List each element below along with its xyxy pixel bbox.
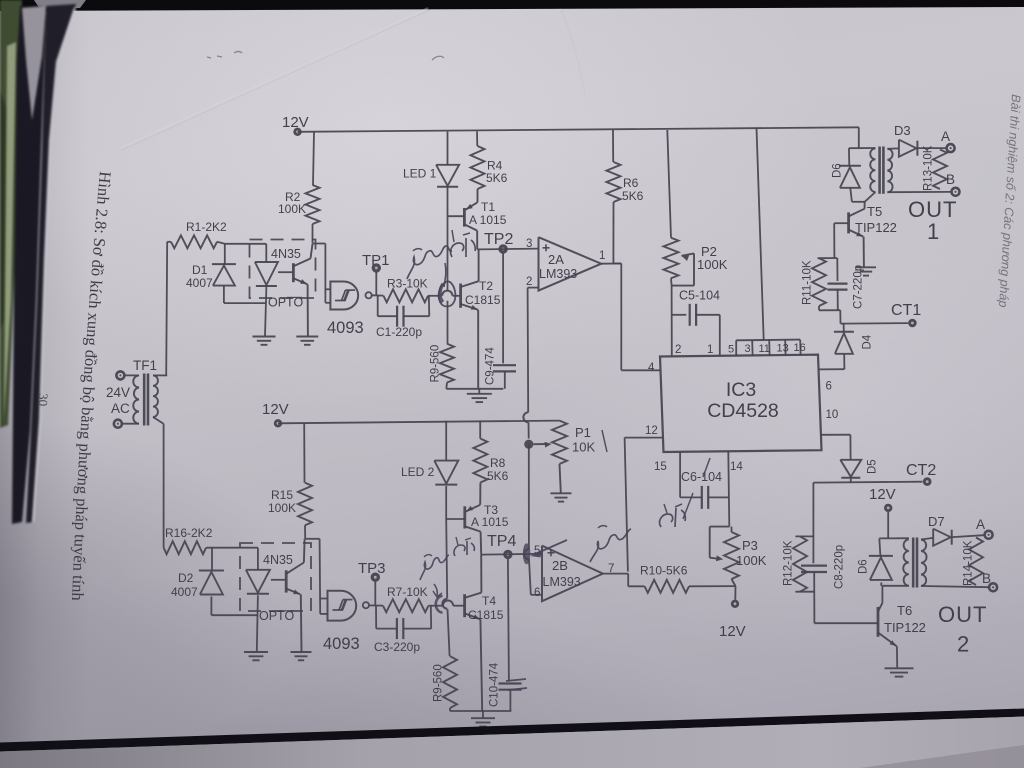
capacitor C7-220p [828, 258, 865, 310]
pin 2 label [675, 344, 681, 356]
node A (OUT2) [976, 517, 993, 539]
wire hop [442, 599, 447, 609]
printed page bottom rule (thick) [0, 709, 1024, 752]
svg-text:LM393: LM393 [543, 575, 581, 589]
book spine / desk edge top-left corner [0, 0, 76, 524]
resistor R4 [471, 131, 508, 189]
svg-text:4093: 4093 [323, 635, 360, 653]
wire [429, 605, 443, 607]
svg-text:Bài thi nghiệm số 2: Các phươn: Bài thi nghiệm số 2: Các phương pháp [996, 94, 1023, 308]
wire [812, 483, 814, 564]
wire [821, 434, 851, 436]
svg-text:1: 1 [927, 219, 939, 244]
ground [253, 337, 276, 345]
wire [819, 306, 841, 324]
wire [428, 295, 442, 297]
ground [471, 711, 495, 727]
svg-text:A: A [941, 129, 950, 144]
paper fold crease [120, 8, 585, 150]
potentiometer P1 [533, 421, 595, 493]
label OUT 2 [938, 602, 987, 657]
svg-text:C10-474: C10-474 [489, 662, 501, 707]
resistor R15 [268, 483, 312, 526]
wire [757, 128, 764, 340]
svg-text:CT2: CT2 [906, 462, 936, 479]
wire [447, 301, 449, 344]
resistor R6 [607, 130, 644, 264]
wire [447, 132, 449, 165]
wire [528, 287, 539, 289]
svg-text:R9-560: R9-560 [433, 664, 445, 702]
wire [887, 191, 951, 193]
svg-text:3: 3 [745, 343, 751, 355]
wire [818, 368, 844, 370]
svg-text:CD4528: CD4528 [707, 400, 779, 422]
svg-text:3: 3 [526, 238, 532, 250]
pin 3 label [745, 343, 751, 355]
capacitor C5-104 [672, 289, 720, 356]
svg-text:T6: T6 [897, 603, 912, 618]
ground [467, 389, 492, 402]
wire hop [523, 412, 528, 422]
wire [445, 421, 447, 461]
wire [303, 423, 305, 483]
wire [278, 271, 293, 273]
ground [244, 652, 268, 660]
wire [879, 537, 909, 539]
NAND gate 4093 (upper) [327, 282, 372, 338]
handwritten note (khong cat, lower) [420, 537, 474, 597]
svg-text:LED 2: LED 2 [401, 465, 435, 479]
potentiometer P2 [664, 130, 728, 286]
wire [163, 424, 165, 548]
resistor R12-10K [783, 536, 808, 591]
transistor T2 C1815 [461, 249, 501, 388]
potentiometer P3 [710, 452, 767, 587]
wire [211, 548, 213, 571]
svg-text:30: 30 [36, 393, 51, 407]
junction (P1 wiper) [524, 440, 533, 449]
svg-text:2: 2 [957, 632, 969, 657]
diode D6 (lower) [858, 538, 893, 586]
svg-text:5K6: 5K6 [487, 469, 509, 483]
wire hop [442, 291, 452, 296]
handwritten circle (wire crossing) [439, 281, 456, 306]
wire [447, 216, 449, 290]
svg-text:D6: D6 [858, 559, 870, 574]
test point TP4 [487, 533, 516, 559]
node B (OUT1) [946, 172, 960, 196]
svg-text:R1-2K2: R1-2K2 [186, 220, 227, 234]
svg-text:5: 5 [728, 344, 734, 356]
wire [453, 605, 464, 607]
pin 10 label [826, 409, 839, 421]
wire [166, 242, 171, 376]
svg-text:A 1015: A 1015 [471, 515, 509, 529]
svg-text:TP2: TP2 [484, 231, 513, 248]
LED 1 [403, 165, 459, 216]
wire [852, 201, 865, 203]
svg-text:12V: 12V [869, 486, 896, 503]
svg-text:CT1: CT1 [891, 302, 921, 319]
ground [551, 493, 572, 501]
diode D5 [840, 435, 878, 483]
pin 12 label [645, 425, 658, 437]
LED 2 [401, 461, 458, 519]
svg-text:TIP122: TIP122 [884, 620, 926, 635]
wire [298, 127, 859, 132]
wire [625, 438, 628, 572]
svg-text:D4: D4 [862, 334, 874, 349]
wire [446, 383, 503, 389]
svg-text:P3: P3 [742, 538, 758, 553]
svg-text:4007: 4007 [171, 585, 198, 599]
wire [278, 421, 560, 424]
svg-text:C1-220p: C1-220p [376, 325, 422, 339]
wire [224, 244, 226, 264]
svg-text:IC3: IC3 [726, 379, 756, 401]
svg-text:T4: T4 [482, 594, 496, 608]
handwritten hop mark (T4 base) [436, 596, 443, 613]
test point TP3 [358, 560, 386, 606]
wire [481, 553, 542, 556]
wire [834, 222, 848, 224]
svg-text:LM393: LM393 [539, 267, 577, 281]
svg-text:D5: D5 [867, 459, 879, 474]
wire [601, 263, 621, 265]
svg-text:D1: D1 [192, 263, 208, 277]
svg-text:R8: R8 [490, 456, 506, 470]
wire [849, 147, 876, 149]
wire [918, 147, 947, 149]
svg-text:C9-474: C9-474 [485, 347, 497, 385]
pin 3 label [526, 238, 532, 250]
node CT1 [841, 302, 922, 327]
IC U3 CD4528 [660, 355, 822, 452]
wire [603, 574, 645, 587]
svg-text:D3: D3 [894, 123, 911, 138]
op-amp U2B LM393 [542, 546, 603, 602]
svg-text:R13-10K: R13-10K [923, 145, 935, 191]
node A (OUT1) [941, 129, 955, 152]
wire [953, 535, 984, 537]
svg-text:B: B [946, 172, 955, 187]
wire [448, 215, 465, 217]
caption (rotated) [68, 171, 115, 602]
pin 1 label [707, 344, 713, 356]
svg-text:12: 12 [645, 425, 658, 437]
svg-text:D6: D6 [832, 163, 844, 178]
wire [843, 323, 845, 331]
ground [856, 267, 876, 275]
wire [206, 547, 258, 549]
svg-text:R16-2K2: R16-2K2 [165, 526, 213, 540]
wire [689, 585, 736, 587]
margin text (right edge) [996, 94, 1023, 308]
paper speck [207, 52, 444, 61]
svg-text:100K: 100K [736, 553, 767, 568]
svg-text:1: 1 [707, 344, 713, 356]
svg-text:4N35: 4N35 [271, 247, 301, 261]
svg-text:16: 16 [794, 342, 806, 354]
resistor R11-10K [802, 258, 827, 306]
wire [313, 244, 326, 303]
svg-text:TF1: TF1 [133, 358, 157, 373]
svg-text:10: 10 [826, 409, 839, 421]
pin 15 label [654, 461, 667, 473]
pin 2 label [526, 276, 532, 288]
svg-text:D7: D7 [928, 514, 945, 529]
svg-text:R7-10K: R7-10K [387, 585, 428, 599]
wire [795, 591, 814, 593]
pin 6 label [534, 587, 540, 599]
resistor R9-560 (lower) [433, 656, 458, 708]
op-amp U2A LM393 [539, 237, 602, 290]
page number 30 [36, 393, 51, 407]
resistor R16-2K2 [164, 526, 213, 554]
wire [305, 539, 320, 614]
svg-text:TIP122: TIP122 [855, 220, 897, 235]
svg-text:6: 6 [534, 587, 540, 599]
node 12V supply (top rail) [282, 114, 309, 136]
transformer (pulse) T5 side [865, 147, 893, 202]
svg-text:5K6: 5K6 [486, 171, 508, 185]
pin 11 label [759, 343, 770, 355]
wire [921, 586, 989, 587]
pin 6 label [826, 381, 832, 393]
wire [325, 289, 330, 303]
svg-text:1: 1 [599, 250, 605, 262]
wire [304, 525, 306, 539]
diode D6 [832, 148, 861, 202]
capacitor C8-220p [801, 545, 846, 589]
svg-text:C3-220p: C3-220p [374, 640, 420, 654]
svg-text:C8-220p: C8-220p [834, 545, 846, 589]
pin 13 label [777, 343, 789, 355]
label OUT 1 [908, 197, 957, 244]
pin 7 label [608, 563, 614, 575]
svg-text:R12-10K: R12-10K [783, 540, 795, 586]
wire [818, 257, 838, 259]
svg-text:P1: P1 [575, 425, 591, 440]
svg-text:R10-5K6: R10-5K6 [640, 564, 688, 578]
wire [858, 127, 860, 148]
optocoupler U1 4N35 box [250, 240, 316, 299]
wire [613, 264, 659, 371]
capacitor C10-474 [489, 559, 522, 711]
wire [477, 248, 538, 251]
transistor T1 A1015 [464, 189, 506, 249]
wire [313, 132, 314, 185]
transistor T3 A1015 [465, 483, 509, 555]
transistor T6 TIP122 [878, 603, 926, 646]
wire [833, 223, 835, 258]
wire [528, 444, 530, 549]
wire [887, 147, 899, 149]
wire [795, 535, 814, 537]
wire [450, 708, 511, 711]
svg-text:2: 2 [675, 344, 681, 356]
pin 1 label [599, 250, 605, 262]
wire [372, 294, 384, 296]
svg-text:LED 1: LED 1 [403, 167, 437, 181]
wire [448, 609, 450, 656]
svg-text:4N35: 4N35 [263, 553, 293, 567]
svg-text:R11-10K: R11-10K [802, 260, 814, 305]
pin 14 label [730, 461, 743, 473]
node B (OUT2) [982, 571, 997, 591]
svg-text:5K6: 5K6 [622, 189, 644, 203]
transformer TF1 [114, 358, 167, 428]
capacitor C3-220p [374, 606, 431, 654]
capacitor C9-474 [485, 253, 517, 388]
svg-text:R9-560: R9-560 [430, 345, 442, 383]
svg-text:C1815: C1815 [465, 293, 501, 307]
handwritten note (khong cat, mid) [590, 430, 710, 562]
wire [211, 597, 258, 616]
photo top black edge [0, 0, 1024, 11]
wire [369, 604, 383, 606]
wire [527, 288, 530, 413]
svg-text:24V: 24V [106, 385, 130, 400]
svg-text:R6: R6 [623, 176, 639, 190]
svg-text:100K: 100K [268, 501, 296, 515]
wire hop [443, 600, 453, 605]
svg-text:11: 11 [759, 343, 770, 355]
wire [529, 559, 542, 595]
diode D7 [928, 514, 952, 546]
node 12V (out2) [869, 486, 896, 538]
wire [271, 579, 285, 581]
wire [625, 437, 663, 439]
svg-text:C1815: C1815 [468, 608, 504, 622]
label OPTO [268, 296, 303, 310]
opto LED D (4N35 #2) [246, 548, 270, 652]
opto LED D (4N35) [255, 244, 278, 336]
svg-text:2A: 2A [548, 252, 564, 267]
ground [885, 668, 914, 676]
opto phototransistor [286, 539, 304, 652]
wire [224, 286, 266, 303]
resistor R1-2K2 [171, 220, 227, 248]
svg-text:4: 4 [648, 362, 655, 374]
svg-text:D2: D2 [178, 571, 194, 585]
resistor R2 [278, 185, 320, 224]
pin 4 label [648, 362, 655, 374]
handwritten equals mark (left edge) [506, 679, 527, 690]
optocoupler U4 4N35 box [240, 543, 311, 611]
node 12V supply (lower rail) [262, 401, 289, 427]
diode D2 [171, 571, 224, 600]
NAND gate 4093 (lower) [323, 591, 369, 653]
wire [921, 538, 933, 540]
wire hop [524, 549, 529, 559]
resistor R7-10K [383, 585, 429, 612]
svg-text:15: 15 [654, 461, 667, 473]
svg-text:T1: T1 [481, 200, 495, 214]
svg-text:13: 13 [777, 343, 789, 355]
node CT2 [813, 462, 936, 486]
wire [217, 242, 266, 244]
resistor R3-10K [384, 277, 429, 303]
handwritten note (khong cat, upper) [407, 230, 475, 287]
svg-text:12V: 12V [719, 623, 746, 640]
label OPTO [259, 609, 294, 623]
ground [291, 652, 312, 660]
wire [446, 518, 465, 520]
svg-text:R14-10K: R14-10K [963, 540, 975, 586]
IC3 pin bus comb [736, 340, 800, 356]
svg-text:2B: 2B [552, 558, 568, 573]
svg-text:14: 14 [730, 461, 743, 473]
diode D3 [894, 123, 917, 157]
resistor R13-10K [923, 145, 948, 191]
capacitor C1-220p [376, 296, 429, 340]
ground [296, 337, 318, 345]
resistor R9-560 [430, 344, 455, 383]
svg-text:AC: AC [111, 401, 130, 416]
resistor R14-10K [963, 538, 984, 587]
wire [453, 295, 461, 297]
transistor T4 C1815 [465, 555, 504, 711]
opto phototransistor [293, 244, 312, 336]
svg-text:OUT: OUT [938, 602, 987, 627]
wire [813, 572, 815, 623]
svg-text:T2: T2 [479, 279, 493, 293]
test point TP1 [362, 252, 390, 296]
svg-text:A 1015: A 1015 [469, 213, 507, 227]
pin 5 label [534, 545, 540, 557]
resistor R10-5K6 [640, 564, 689, 593]
svg-text:A: A [976, 517, 985, 532]
transistor T5 TIP122 [849, 202, 897, 267]
capacitor C6-104 [680, 452, 729, 509]
wire [814, 622, 877, 624]
svg-text:2: 2 [526, 276, 532, 288]
diode D4 [834, 332, 874, 369]
handwritten arrow (pin 5) [523, 540, 567, 564]
node 12V (mid) [719, 586, 746, 640]
svg-text:10K: 10K [572, 440, 595, 455]
svg-text:C6-104: C6-104 [681, 470, 722, 484]
svg-text:R15: R15 [271, 488, 293, 502]
svg-text:6: 6 [826, 381, 832, 393]
wire [528, 422, 530, 438]
wire [896, 646, 898, 667]
svg-text:T5: T5 [867, 204, 882, 219]
diode D1 [186, 263, 236, 290]
wire [671, 286, 673, 356]
paper below bottom rule [0, 717, 1024, 768]
wire [312, 224, 314, 244]
transformer (pulse) T6 side [882, 538, 926, 603]
pin 5 label [728, 344, 734, 356]
svg-text:100K: 100K [697, 257, 728, 272]
svg-text:12V: 12V [262, 401, 289, 418]
svg-text:4093: 4093 [327, 319, 364, 337]
svg-text:C5-104: C5-104 [679, 289, 720, 303]
wire [320, 599, 328, 614]
pin 16 label [794, 342, 806, 354]
wire [446, 519, 447, 598]
svg-text:4007: 4007 [186, 276, 213, 290]
resistor R8 [473, 421, 508, 484]
svg-text:TP4: TP4 [487, 533, 516, 550]
svg-text:100K: 100K [278, 202, 306, 216]
label 24V AC [106, 385, 130, 416]
test point TP2 [484, 231, 513, 254]
